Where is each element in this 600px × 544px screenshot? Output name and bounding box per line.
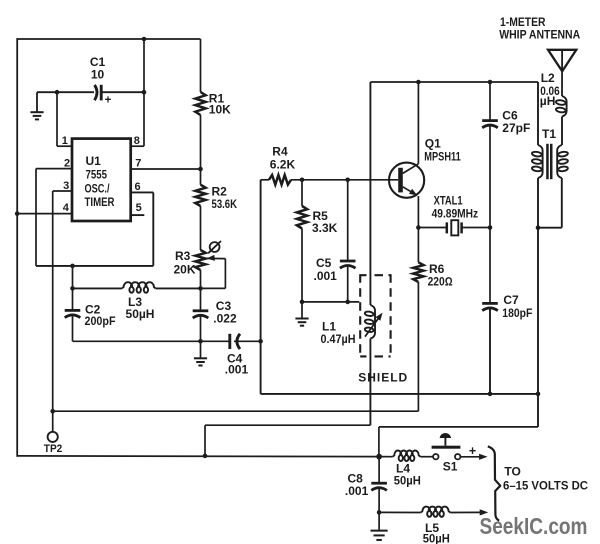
svg-text:U1: U1 [86,154,102,168]
node C5 top junction [345,178,350,183]
op-amp U1 7555 OSC./TIMER box [72,139,131,221]
inductor L4 50uH [379,456,393,458]
svg-text:50µH: 50µH [423,532,450,544]
capacitor C7 180pF [489,228,491,304]
wire pin 6 vertical [152,192,154,266]
node T1 windings tie [536,225,541,230]
svg-text:3: 3 [63,180,69,192]
supply brace [488,446,501,520]
resistor R5 3.3K [301,180,303,206]
svg-text:4: 4 [63,202,70,214]
wire R4 column vertical [260,180,262,394]
resistor R2 53.6K [195,185,205,206]
test point TP2 [52,411,54,432]
node R3 bottom junction [198,286,203,291]
svg-text:10: 10 [91,68,105,82]
svg-text:7555: 7555 [86,168,108,182]
svg-text:S1: S1 [443,460,458,474]
wire lower rail y341 [73,340,230,342]
node C4 / R4-column junction [258,339,263,344]
wire C2 vertical [72,266,74,311]
wire C1 row [37,91,94,93]
wire R4 to Q1 base [291,179,398,181]
svg-text:180pF: 180pF [502,306,532,320]
ground below C8 [378,512,380,529]
svg-text:50µH: 50µH [126,307,155,321]
inductor L1 0.47uH variable [370,305,375,339]
wire R1 to R2 [200,115,202,185]
svg-text:TP2: TP2 [44,443,63,455]
wire T1 primary bottom [537,178,539,228]
wire top rail corner down to T1 primary [537,82,539,145]
node R5 bottom junction [300,300,305,305]
svg-text:6.2K: 6.2K [270,157,296,171]
node collector / top rail [416,80,421,85]
svg-text:+: + [105,95,112,107]
svg-text:1: 1 [62,135,68,147]
inductor L5 50uH [379,511,421,513]
wire top-left supply rail [17,38,200,40]
svg-text:1-METER: 1-METER [500,17,546,29]
capacitor C5 .001 [347,180,349,261]
wire top supply rail [370,81,538,83]
inductor L3 50uH [122,282,156,293]
svg-text:2: 2 [64,157,70,169]
pin 2 [36,168,72,170]
node C5 bottom junction [345,300,350,305]
svg-text:T1: T1 [542,127,556,141]
node C2 branch junction [70,264,75,269]
svg-text:OSC./: OSC./ [85,182,111,196]
wire collector to top rail [417,82,419,164]
resistor R6 220ohm [417,228,419,263]
wire L1 bottom return [205,424,370,426]
svg-text:.022: .022 [213,311,237,325]
svg-text:.001: .001 [345,484,369,498]
resistor R3 20K potentiometer [195,250,205,270]
svg-text:7: 7 [135,157,141,169]
wire R2 to R3 [200,206,202,250]
wire emitter down [417,196,418,198]
crystal XTAL1 49.89MHz [418,227,446,229]
capacitor C3 .022 [193,309,209,312]
wire pin2-pin6 link horizontal [36,265,153,267]
capacitor C4 .001 [228,334,231,349]
svg-text:L2: L2 [541,71,555,85]
node TP2 junction [50,409,55,414]
svg-text:27pF: 27pF [502,121,530,135]
svg-text:53.6K: 53.6K [212,197,238,211]
svg-text:SHIELD: SHIELD [358,370,408,384]
svg-text:TO: TO [504,464,520,478]
svg-text:0.47µH: 0.47µH [321,332,356,346]
capacitor C8 .001 [378,457,380,484]
wire L1 top vertical [369,82,371,305]
pot R3 adjustment screw [210,242,220,252]
svg-text:µH: µH [540,94,556,108]
wire bottom rail [17,455,379,458]
wire R6 bottom vertical [417,282,419,411]
node T1 / rail end junction [536,392,541,397]
capacitor C1 [95,85,98,100]
wire T1 secondary bottom [561,178,563,228]
pin 6 [131,191,154,193]
svg-text:TIMER: TIMER [85,195,115,209]
svg-text:200pF: 200pF [85,314,116,328]
node C7 bottom / rail junction [488,392,493,397]
wire R3 to C3 [200,288,202,310]
svg-text:6–15 VOLTS DC: 6–15 VOLTS DC [503,478,588,492]
pin 1 [57,145,72,147]
node bottom rail / L1-return junction [203,454,208,459]
svg-text:10K: 10K [209,103,231,117]
svg-text:C5: C5 [316,256,332,270]
svg-text:6: 6 [135,181,141,193]
wire L4 node to mid rail (seg2) [378,427,380,457]
wire L1 bottom vertical [369,339,371,426]
inductor L2 0.06uH [562,96,567,117]
ground near C1 [36,92,38,111]
pin 7 [131,168,201,170]
wire R5/C5 bottom to shield [302,301,359,303]
arrow to supply (bottom) [480,509,489,515]
antenna symbol [548,50,576,72]
svg-text:49.89MHz: 49.89MHz [432,206,479,220]
resistor R4 6.2K [261,179,269,181]
svg-text:3.3K: 3.3K [312,221,338,235]
node C8 / L4 / rail junction [376,454,382,460]
svg-text:WHIP ANTENNA: WHIP ANTENNA [499,29,580,41]
transistor Q1 MPSH11 [389,163,424,198]
svg-text:220Ω: 220Ω [428,274,453,288]
wire S1 to supply arrow [461,456,481,458]
wire top rail to R1 [200,39,202,92]
wire mid rail y393 [261,393,538,395]
svg-text:20K: 20K [174,263,196,277]
svg-text:XTAL1: XTAL1 [434,193,463,207]
wire TP2 line [53,410,419,412]
pin 8 [131,145,144,147]
wire C1-right vertical to pin 8 [143,39,145,146]
node R5 top junction [300,178,305,183]
svg-text:+: + [469,444,476,458]
svg-text:Q1: Q1 [425,137,441,151]
arrow to supply (top) [479,454,488,460]
wire L2 to T1 secondary [561,117,563,146]
wire L3 row [73,287,123,289]
shield dashed box [360,274,390,276]
node C2 / L3 corner [70,286,75,291]
node emitter / XTAL1 / R6 junction [416,225,421,230]
node C1 right junction [142,90,147,95]
svg-text:50µH: 50µH [394,474,421,488]
svg-text:MPSH11: MPSH11 [424,150,461,164]
pot R3 wiper arrow [207,255,215,261]
switch S1 pushbutton [440,433,452,438]
node top wire / C1 column junction [142,37,147,42]
node C1 left junction [55,90,60,95]
wire T1 tie down to rail [537,228,539,394]
svg-text:SeekIC.com: SeekIC.com [480,513,588,539]
svg-text:.001: .001 [225,363,249,377]
node C6 / top rail [488,80,493,85]
ground below C3 [200,341,202,357]
capacitor C6 27pF [489,82,491,121]
node pin4 / left rail junction [15,211,20,216]
capacitor C2 200pF [65,309,81,312]
ground below R5 [301,302,303,318]
pin 3 [53,190,72,192]
svg-text:8: 8 [134,135,140,147]
svg-text:R3: R3 [175,249,191,263]
svg-text:.001: .001 [314,269,338,283]
wire pin 2 vertical [35,169,37,266]
node XTAL1 right junction [488,225,493,230]
wire pin 3 vertical [52,191,54,411]
L1 adjustment arrow [365,318,379,337]
svg-text:C6: C6 [502,108,518,122]
pin 5 stub [131,214,145,216]
wire C3 to lower rail [200,316,202,341]
svg-text:5: 5 [136,202,142,214]
wire pin1 vertical [56,92,58,146]
resistor R1 10K [195,92,205,115]
node pin7 / R1 / R2 junction [198,167,203,172]
node C8 bottom / L5 junction [377,510,382,515]
pin 4 [18,213,72,215]
node C3 / ground junction [198,339,203,344]
